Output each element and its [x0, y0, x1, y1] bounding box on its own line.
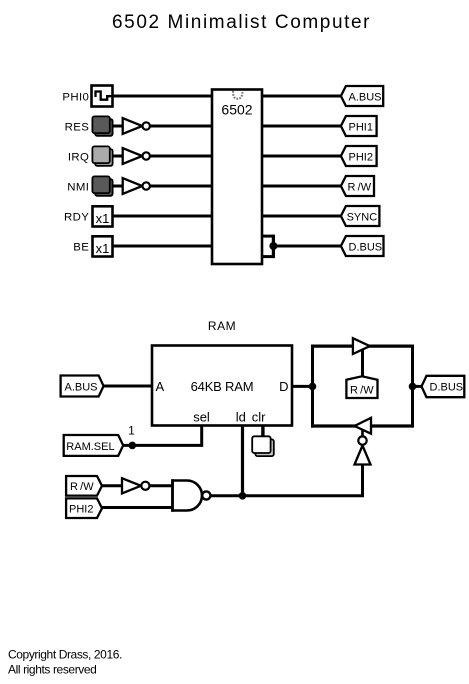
- push-button IRQ: [92, 146, 112, 165]
- NAND gate G1: [173, 479, 211, 512]
- svg-text:RES: RES: [65, 122, 90, 134]
- wire RAM D to loop: [292, 385, 313, 388]
- inverter on RES line: [123, 118, 150, 134]
- node junction constant 1: [129, 442, 137, 450]
- svg-text:1: 1: [128, 424, 135, 438]
- input box BE x1: [93, 236, 113, 256]
- svg-text:D.BUS: D.BUS: [349, 241, 383, 253]
- svg-text:clr: clr: [252, 410, 266, 425]
- tag D.BUS (bottom): [422, 376, 465, 397]
- svg-text:R /W: R /W: [350, 384, 374, 396]
- wire U1 to PHI2 tag: [261, 155, 342, 158]
- svg-text:PHI2: PHI2: [69, 503, 93, 515]
- svg-text:NMI: NMI: [67, 182, 89, 194]
- clock source PHI0: [92, 86, 113, 107]
- wire R/W to inverter: [102, 484, 123, 487]
- RAM 64KB block: [152, 346, 292, 426]
- svg-text:x1: x1: [96, 211, 110, 226]
- tag RAM.SEL (source): [64, 435, 123, 456]
- push-button NMI: [92, 176, 112, 195]
- tag PHI2: [341, 146, 377, 166]
- tag R/W (source): [66, 476, 102, 496]
- tag SYNC: [341, 206, 380, 226]
- tag A.BUS (source): [61, 376, 104, 397]
- CPU U1 6502: [212, 90, 262, 265]
- wire RDY to U1: [113, 215, 214, 218]
- wire IRQ inverter to U1: [150, 155, 213, 158]
- svg-text:PHI0: PHI0: [62, 92, 89, 104]
- buffer read (right-pointing) on loop top: [353, 338, 370, 354]
- svg-text:PHI1: PHI1: [349, 121, 373, 133]
- push-button RES: [92, 116, 112, 135]
- inverter on R/W line: [122, 478, 149, 493]
- tag PHI1: [341, 116, 377, 136]
- svg-text:sel: sel: [193, 410, 210, 425]
- svg-text:SYNC: SYNC: [347, 211, 378, 223]
- wire RES button to inverter: [113, 125, 124, 128]
- wire U1 to SYNC tag: [261, 215, 342, 218]
- svg-text:R /W: R /W: [70, 481, 94, 493]
- wire loop to D.BUS tag: [413, 385, 423, 388]
- svg-text:All rights reserved: All rights reserved: [8, 663, 96, 677]
- svg-text:A.BUS: A.BUS: [65, 381, 98, 393]
- svg-text:R /W: R /W: [348, 181, 372, 193]
- tag PHI2 (source): [66, 498, 102, 518]
- node D junction left: [309, 383, 317, 391]
- transceiver loop wires: [311, 345, 413, 428]
- svg-text:RAM: RAM: [208, 319, 236, 333]
- svg-text:BE: BE: [73, 242, 89, 254]
- svg-text:64KB RAM: 64KB RAM: [191, 379, 254, 394]
- svg-text:RDY: RDY: [64, 212, 89, 224]
- inverter on IRQ line: [123, 148, 150, 164]
- buffer write (left-pointing) on loop bottom: [355, 418, 372, 434]
- tag D.BUS (top): [341, 236, 384, 256]
- push-button CLR: [252, 436, 274, 456]
- wire NAND output to enable inverter: [210, 465, 362, 496]
- svg-text:RAM.SEL: RAM.SEL: [66, 441, 114, 453]
- wire PHI0 to U1: [113, 95, 214, 98]
- node D junction right: [409, 383, 417, 391]
- svg-text:x1: x1: [96, 241, 110, 256]
- wire BE to U1: [113, 245, 214, 248]
- input box RDY x1: [93, 206, 113, 226]
- svg-text:IRQ: IRQ: [68, 152, 89, 164]
- svg-text:6502 Minimalist Computer: 6502 Minimalist Computer: [112, 12, 371, 33]
- svg-text:D: D: [279, 379, 288, 394]
- wire buffer read enable: [361, 349, 364, 378]
- inverter on NMI line: [123, 178, 150, 194]
- svg-text:ld: ld: [236, 410, 246, 425]
- wire NMI button to inverter: [113, 185, 124, 188]
- wire U1 to A.BUS tag: [261, 95, 342, 98]
- svg-text:A: A: [156, 379, 165, 394]
- tag R/W (top): [341, 176, 374, 196]
- wire PHI2 to NAND input B: [102, 506, 174, 509]
- tag R/W enable (pointing up): [346, 376, 377, 398]
- node junction ld / NAND output: [239, 492, 247, 500]
- wire U1 to PHI1 tag: [261, 125, 342, 128]
- svg-text:A.BUS: A.BUS: [349, 91, 382, 103]
- inverter enable (pointing up): [355, 430, 371, 465]
- wire RAM.SEL to sel pin: [123, 426, 202, 446]
- wire inverter to NAND input A: [149, 484, 174, 487]
- wire U1 to R/W tag: [261, 185, 342, 188]
- wire RES inverter to U1: [150, 125, 213, 128]
- wire A.BUS to RAM pin A: [104, 385, 152, 388]
- wire IRQ button to inverter: [113, 155, 124, 158]
- node D.BUS pin bracket on U1: [261, 235, 277, 259]
- svg-text:Copyright Drass, 2016.: Copyright Drass, 2016.: [8, 648, 122, 662]
- wire NMI inverter to U1: [150, 185, 213, 188]
- wire clr pin down: [261, 426, 264, 439]
- wire U1 to D.BUS tag: [273, 245, 342, 248]
- svg-text:PHI2: PHI2: [349, 151, 373, 163]
- svg-text:6502: 6502: [221, 102, 252, 118]
- svg-text:D.BUS: D.BUS: [430, 382, 464, 394]
- wire ld pin down: [241, 426, 244, 497]
- tag A.BUS (top): [341, 86, 383, 106]
